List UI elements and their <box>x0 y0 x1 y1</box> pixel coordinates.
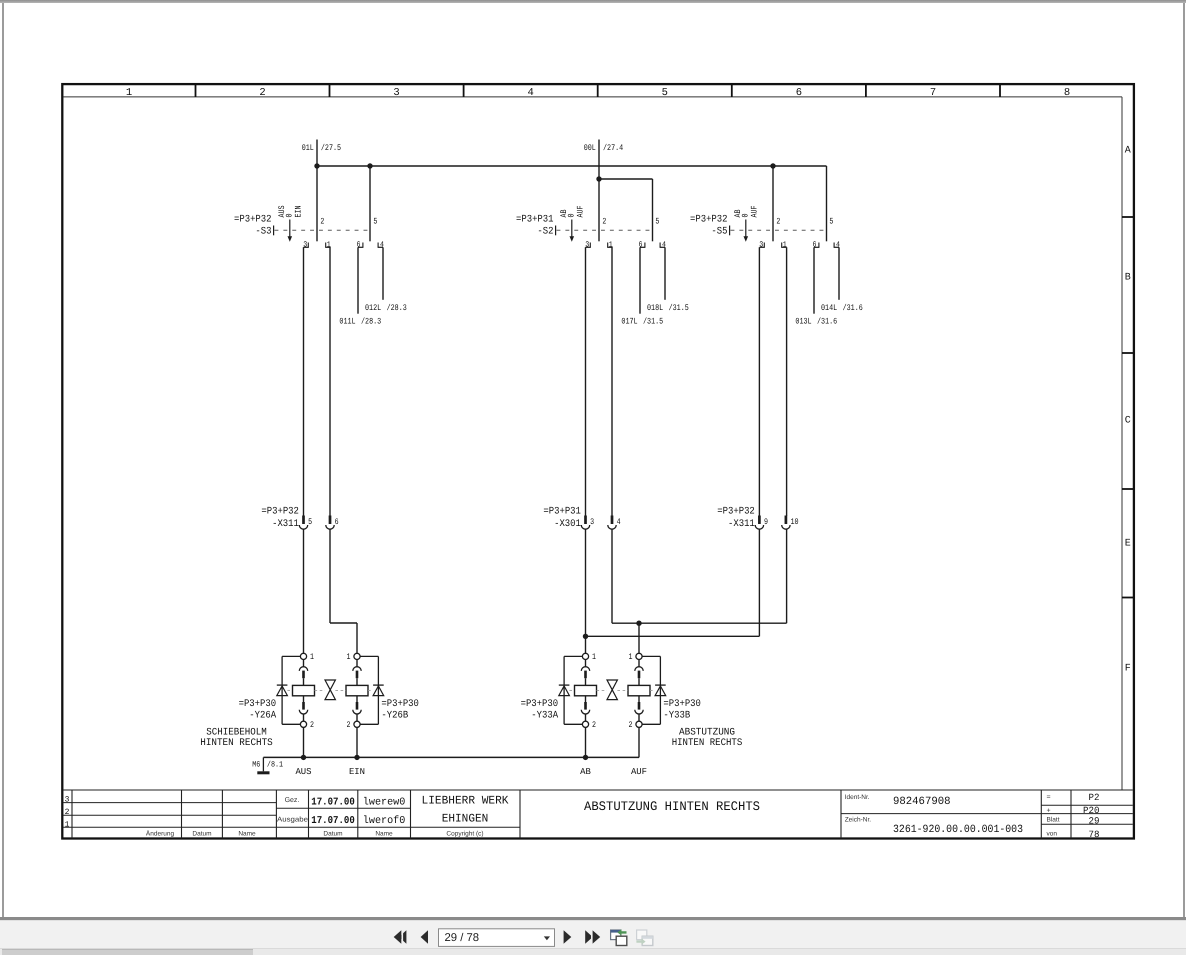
svg-text:4: 4 <box>527 87 533 99</box>
Y26A pin 1 <box>310 652 314 662</box>
S5 contact 1 <box>781 240 787 249</box>
svg-text:AUS: AUS <box>295 767 311 777</box>
svg-text:4: 4 <box>617 517 621 527</box>
svg-text:2: 2 <box>310 720 314 730</box>
svg-text:3261-920.00.00.001-003: 3261-920.00.00.001-003 <box>893 824 1023 836</box>
svg-text:00L: 00L <box>584 143 596 153</box>
wire X311.6 to Y26B (EIN) <box>330 530 357 654</box>
switch S3 head <box>234 205 370 241</box>
svg-text:2: 2 <box>320 216 324 226</box>
wire AUF cross-link to X311.10 <box>786 530 788 624</box>
svg-text:2: 2 <box>602 216 606 226</box>
svg-text:1: 1 <box>629 652 633 662</box>
S5 contact 6 <box>813 240 820 249</box>
svg-text:017L: 017L <box>621 317 637 327</box>
drawing frame outer border <box>62 84 1134 838</box>
svg-text:Datum: Datum <box>192 831 211 838</box>
svg-text:5: 5 <box>662 87 668 99</box>
svg-text:A: A <box>1125 146 1131 157</box>
S3 contact 6 <box>357 240 364 249</box>
svg-text:5: 5 <box>655 216 659 226</box>
svg-text:/31.5: /31.5 <box>643 317 663 327</box>
svg-text:10: 10 <box>791 517 799 527</box>
solenoid valve coil Y26A <box>293 653 315 727</box>
suppressor diode of Y26A <box>277 656 301 724</box>
svg-text:HINTEN RECHTS: HINTEN RECHTS <box>200 738 273 749</box>
svg-text:-X311: -X311 <box>272 519 299 530</box>
svg-text:2: 2 <box>776 216 780 226</box>
connector X311 label <box>717 507 755 530</box>
wire AB cross-link to X311.9 <box>586 530 760 637</box>
svg-text:-Y33B: -Y33B <box>663 711 690 722</box>
switch S2 head <box>516 205 652 241</box>
wire 013L to sheet 31.6 <box>795 247 837 326</box>
svg-text:=P3+P32: =P3+P32 <box>261 507 299 518</box>
junction AB <box>583 755 588 760</box>
svg-text:/8.1: /8.1 <box>267 761 283 770</box>
svg-text:78: 78 <box>1089 829 1100 840</box>
junction AUF net <box>636 621 641 626</box>
svg-text:=P3+P30: =P3+P30 <box>521 699 559 710</box>
svg-text:1: 1 <box>65 821 70 830</box>
svg-text:ABSTUTZUNG HINTEN RECHTS: ABSTUTZUNG HINTEN RECHTS <box>584 799 760 814</box>
Y33B pin 1 <box>629 652 633 662</box>
svg-text:C: C <box>1125 416 1131 427</box>
svg-text:/27.5: /27.5 <box>321 143 341 153</box>
Y33B pin 2 <box>629 720 633 730</box>
svg-text:-X311: -X311 <box>728 519 755 530</box>
junction AB net <box>583 634 588 639</box>
node label AUS <box>295 767 311 777</box>
node label AUF <box>631 767 647 777</box>
svg-text:/28.3: /28.3 <box>387 303 407 313</box>
svg-text:P2: P2 <box>1089 792 1100 803</box>
wire ground bus M6 <box>263 756 639 758</box>
svg-text:012L: 012L <box>365 303 381 313</box>
connector X301 pin 3 <box>581 516 594 530</box>
svg-text:01L: 01L <box>302 143 314 153</box>
S3 contact 1 <box>325 240 331 249</box>
label Y33B <box>663 699 701 722</box>
svg-text:lwerof0: lwerof0 <box>363 815 406 827</box>
wire 014L to sheet 31.6 <box>821 247 863 313</box>
wire Y26B pin 2 to M6 bus <box>356 727 358 757</box>
svg-text:Name: Name <box>238 831 256 838</box>
svg-text:1: 1 <box>592 652 596 662</box>
S2 pin 5 label <box>655 216 659 226</box>
wire to S5 pin 5 <box>826 166 828 241</box>
connector X311 label <box>261 507 299 530</box>
svg-text:M6: M6 <box>252 761 260 770</box>
wire 018L to sheet 31.5 <box>647 247 689 313</box>
wire bus 00L to S2 pin 5 <box>599 179 653 241</box>
svg-text:AUF: AUF <box>750 205 760 217</box>
function label SCHIEBEHOLM <box>200 727 273 749</box>
label Y33A <box>521 699 559 722</box>
svg-text:LIEBHERR WERK: LIEBHERR WERK <box>422 795 509 808</box>
wire 011L to sheet 28.3 <box>339 247 381 326</box>
column header band <box>64 84 1123 99</box>
viewer toolbar controls <box>394 929 653 947</box>
S2 contact 6 <box>639 240 646 249</box>
Y26B pin 2 <box>347 720 351 730</box>
svg-text:=P3+P32: =P3+P32 <box>234 215 272 226</box>
svg-text:lwerew0: lwerew0 <box>363 796 406 808</box>
svg-text:3: 3 <box>65 796 70 805</box>
S2 contact 4 <box>660 240 667 249</box>
S5 pin 2 label <box>776 216 780 226</box>
svg-text:9: 9 <box>764 517 768 527</box>
svg-text:-S2: -S2 <box>537 227 553 238</box>
suppressor diode of Y26B <box>360 656 384 724</box>
svg-text:=: = <box>1047 794 1051 801</box>
connector X301 label <box>543 507 581 530</box>
function label ABSTUTZUNG <box>672 727 743 749</box>
ground symbol M6 /8.1 <box>252 757 283 774</box>
svg-text:011L: 011L <box>339 317 355 327</box>
svg-text:B: B <box>1125 273 1131 284</box>
svg-text:=P3+P30: =P3+P30 <box>239 699 277 710</box>
S2 contact 1 <box>607 240 613 249</box>
svg-text:+: + <box>1047 808 1051 815</box>
mechanical linkage dashes <box>569 689 655 691</box>
svg-text:F: F <box>1125 664 1131 675</box>
svg-text:29: 29 <box>1089 815 1100 826</box>
svg-text:17.07.00: 17.07.00 <box>311 796 355 808</box>
wire X301.4 to AUF net <box>612 530 787 624</box>
svg-text:ABSTUTZUNG: ABSTUTZUNG <box>679 727 735 738</box>
svg-text:=P3+P30: =P3+P30 <box>381 699 419 710</box>
Y33A pin 1 <box>592 652 596 662</box>
svg-text:/28.3: /28.3 <box>361 317 381 327</box>
label Y26B <box>381 699 419 722</box>
svg-text:Ident-Nr.: Ident-Nr. <box>845 794 870 801</box>
svg-text:AUF: AUF <box>576 205 586 217</box>
Y26A pin 2 <box>310 720 314 730</box>
wire Y33B pin 2 to M6 bus <box>638 727 640 757</box>
svg-text:von: von <box>1047 831 1058 838</box>
wire to S3 pin 2 <box>316 166 318 241</box>
svg-text:-Y33A: -Y33A <box>531 711 558 722</box>
svg-text:5: 5 <box>829 216 833 226</box>
svg-text:AB: AB <box>580 767 591 777</box>
svg-text:982467908: 982467908 <box>893 796 951 808</box>
wire 012L to sheet 28.3 <box>365 247 407 313</box>
svg-text:2: 2 <box>629 720 633 730</box>
svg-text:Name: Name <box>375 831 393 838</box>
valve body symbol <box>607 680 617 700</box>
svg-text:018L: 018L <box>647 303 663 313</box>
svg-text:-Y26A: -Y26A <box>249 711 276 722</box>
switch S5 head <box>690 205 826 241</box>
svg-text:Copyright (c): Copyright (c) <box>446 831 483 838</box>
svg-text:/31.6: /31.6 <box>843 303 863 313</box>
label Y26A <box>239 699 277 722</box>
svg-text:HINTEN RECHTS: HINTEN RECHTS <box>672 738 743 749</box>
svg-text:=P3+P31: =P3+P31 <box>543 507 581 518</box>
wire 017L to sheet 31.5 <box>621 247 663 326</box>
svg-text:=P3+P32: =P3+P32 <box>690 215 728 226</box>
wire S3.3 to X311.5 <box>303 247 305 516</box>
wire S2.1 to X301.4 <box>611 247 613 516</box>
S3 contact 4 <box>378 240 385 249</box>
Y26B pin 1 <box>347 652 351 662</box>
svg-text:6: 6 <box>335 517 339 527</box>
suppressor diode of Y33B <box>642 656 666 724</box>
svg-text:EHINGEN: EHINGEN <box>442 813 489 826</box>
solenoid valve coil Y33A <box>575 653 597 727</box>
svg-text:Zeich-Nr.: Zeich-Nr. <box>845 817 872 824</box>
connector X311 pin 9 <box>755 516 768 530</box>
svg-text:2: 2 <box>65 808 70 817</box>
svg-text:-S5: -S5 <box>711 227 727 238</box>
svg-text:6: 6 <box>796 87 802 99</box>
wire Y33A pin 2 to M6 bus <box>585 727 587 757</box>
node 01L junction <box>314 163 319 168</box>
svg-text:Datum: Datum <box>323 831 342 838</box>
S2 pin 2 label <box>602 216 606 226</box>
S5 pin 5 label <box>829 216 833 226</box>
wire S5.1 to X311.10 <box>786 247 788 516</box>
junction S3 t5 branch <box>367 163 372 168</box>
wire Y26A pin 2 to M6 bus <box>303 727 305 757</box>
svg-text:SCHIEBEHOLM: SCHIEBEHOLM <box>206 727 267 738</box>
wire 00L from sheet 27.4 <box>584 140 624 242</box>
wire to S5 pin 2 <box>772 166 774 241</box>
svg-text:Ausgabe: Ausgabe <box>277 816 308 824</box>
S5 contact 3 <box>759 240 765 249</box>
svg-text:=P3+P31: =P3+P31 <box>516 215 554 226</box>
wire bus 01L horizontal <box>317 165 827 167</box>
title block <box>64 790 1133 840</box>
row letter band <box>1122 97 1134 790</box>
connector X311 pin 6 <box>326 516 339 530</box>
svg-text:=P3+P30: =P3+P30 <box>663 699 701 710</box>
S5 contact 4 <box>834 240 841 249</box>
svg-text:3: 3 <box>590 517 594 527</box>
S3 contact 3 <box>303 240 309 249</box>
valve body symbol <box>325 680 335 700</box>
wire X301.3 to Y33A (AB) <box>585 530 587 654</box>
wire S5.3 to X311.9 <box>758 247 760 516</box>
connector X311 pin 10 <box>782 516 799 530</box>
svg-text:17.07.00: 17.07.00 <box>311 815 355 827</box>
svg-text:Änderung: Änderung <box>146 830 175 838</box>
svg-text:Blatt: Blatt <box>1047 817 1060 824</box>
svg-text:5: 5 <box>308 517 312 527</box>
svg-text:/31.5: /31.5 <box>669 303 689 313</box>
S2 contact 3 <box>585 240 591 249</box>
svg-text:EIN: EIN <box>349 767 365 777</box>
svg-text:013L: 013L <box>795 317 811 327</box>
svg-text:5: 5 <box>373 216 377 226</box>
svg-text:1: 1 <box>347 652 351 662</box>
solenoid valve coil Y33B <box>628 653 650 727</box>
svg-text:-S3: -S3 <box>255 227 271 238</box>
svg-text:E: E <box>1125 539 1131 550</box>
svg-text:29 / 78: 29 / 78 <box>445 932 480 944</box>
connector X301 pin 4 <box>608 516 621 530</box>
junction EIN <box>354 755 359 760</box>
svg-text:8: 8 <box>1064 87 1070 99</box>
junction AUS <box>301 755 306 760</box>
svg-text:-X301: -X301 <box>554 519 581 530</box>
connector X311 pin 5 <box>299 516 312 530</box>
junction S5 t2 branch <box>770 163 775 168</box>
node 00L junction <box>596 176 601 181</box>
solenoid valve coil Y26B <box>346 653 368 727</box>
svg-text:014L: 014L <box>821 303 837 313</box>
wire AUF to Y33B <box>638 623 640 653</box>
svg-text:AUF: AUF <box>631 767 647 777</box>
Y33A pin 2 <box>592 720 596 730</box>
svg-text:=P3+P32: =P3+P32 <box>717 507 755 518</box>
mechanical linkage dashes <box>287 689 373 691</box>
suppressor diode of Y33A <box>559 656 583 724</box>
svg-text:EIN: EIN <box>294 205 304 217</box>
svg-text:7: 7 <box>930 87 936 99</box>
node label AB <box>580 767 591 777</box>
wire X311.5 to Y26A <box>303 530 305 654</box>
S3 pin 2 label <box>320 216 324 226</box>
wire 01L from sheet 27.5 <box>302 140 341 167</box>
svg-text:3: 3 <box>393 87 399 99</box>
wire to S3 pin 5 <box>369 166 371 241</box>
svg-text:2: 2 <box>259 87 265 99</box>
svg-text:1: 1 <box>310 652 314 662</box>
S3 pin 5 label <box>373 216 377 226</box>
wire S3.1 to X311.6 <box>329 247 331 516</box>
svg-text:Gez.: Gez. <box>285 797 300 804</box>
svg-text:/31.6: /31.6 <box>817 317 837 327</box>
svg-text:-Y26B: -Y26B <box>381 711 408 722</box>
node label EIN <box>349 767 365 777</box>
wire S2.3 to X301.3 <box>585 247 587 516</box>
svg-text:2: 2 <box>592 720 596 730</box>
svg-text:/27.4: /27.4 <box>603 143 623 153</box>
svg-text:1: 1 <box>126 87 132 99</box>
svg-text:2: 2 <box>347 720 351 730</box>
